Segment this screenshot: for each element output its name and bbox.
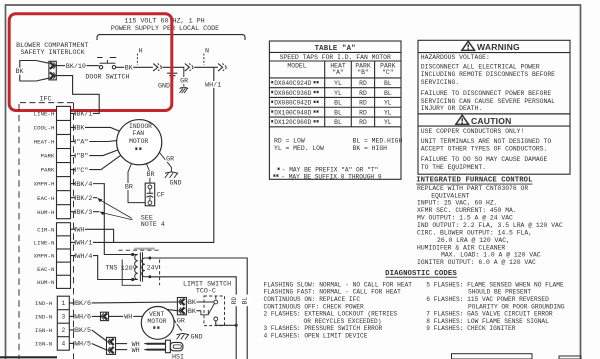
- label BL rotated: [243, 295, 250, 307]
- svg-text:FAILURE TO DO SO MAY CAUSE DAM: FAILURE TO DO SO MAY CAUSE DAMAGE: [421, 156, 548, 163]
- wire BK/1 to interlock: [56, 76, 99, 114]
- wire vent motor to connector: [167, 310, 177, 311]
- wire BK/10: [56, 65, 65, 67]
- wire N bus: [194, 66, 218, 68]
- node N: [203, 54, 205, 65]
- svg-text:FLASHING SLOW: NORMAL - NO CAL: FLASHING SLOW: NORMAL - NO CALL FOR HEAT: [264, 281, 413, 288]
- chassis ground fan motor: [165, 172, 178, 173]
- svg-text:RD: RD: [359, 90, 367, 97]
- svg-text:INTEGRATED FURNACE CONTROL: INTEGRATED FURNACE CONTROL: [416, 177, 532, 185]
- svg-text:BL: BL: [384, 80, 392, 87]
- svg-text:INJURY OR DEATH.: INJURY OR DEATH.: [421, 105, 482, 112]
- svg-text:SERVICING.: SERVICING.: [421, 79, 459, 86]
- svg-text:MAX. LOAD: 1.0 A @ 120 VAC: MAX. LOAD: 1.0 A @ 120 VAC: [441, 252, 541, 259]
- ground earth GND: [171, 67, 173, 73]
- igniter HSI: [166, 340, 171, 353]
- svg-text:INCLUDING REMOTE DISCONNECTS B: INCLUDING REMOTE DISCONNECTS BEFORE: [421, 71, 555, 78]
- svg-text:8 FLASHES: LOW FLAME SENSE SIG: 8 FLASHES: LOW FLAME SENSE SIGNAL: [426, 318, 549, 325]
- node H: [136, 54, 138, 65]
- connector pair line-H: [153, 64, 158, 72]
- door switch S1: [99, 66, 102, 69]
- transformer core: [139, 252, 141, 281]
- transformer right bracket: [159, 260, 161, 286]
- wire label BK/2: [71, 197, 76, 199]
- terminal strip N-side: [57, 223, 71, 289]
- wire BK/4 to transformer: [93, 184, 132, 255]
- svg-text:26.0 LRA @ 120 VAC,: 26.0 LRA @ 120 VAC,: [437, 237, 510, 244]
- wire BK limit top: [186, 301, 187, 303]
- power supply bracket: [97, 35, 245, 40]
- svg-text:BL = MED.HIGH: BL = MED.HIGH: [353, 137, 403, 144]
- table A box: [269, 41, 401, 179]
- wire label WH/6: [69, 315, 74, 317]
- table A data rows: [269, 87, 401, 89]
- svg-text:"B": "B": [357, 69, 369, 76]
- svg-text:RD: RD: [359, 100, 367, 107]
- wire label BK/6: [69, 302, 74, 304]
- connector pair 3: [218, 64, 223, 72]
- svg-text:OR RECYCLES EXCEEDED): OR RECYCLES EXCEEDED): [304, 318, 382, 325]
- wire WH/1 stub: [93, 241, 95, 243]
- svg-text:CONTINUOUS OFF: CHECK POWER: CONTINUOUS OFF: CHECK POWER: [264, 303, 365, 310]
- svg-text:MODEL: MODEL: [287, 63, 306, 70]
- svg-text:TABLE "A": TABLE "A": [315, 45, 356, 53]
- svg-text:4 FLASHES: OPEN LIMIT DEVICE: 4 FLASHES: OPEN LIMIT DEVICE: [264, 333, 368, 340]
- svg-text:TO THE EQUIPMENT.: TO THE EQUIPMENT.: [421, 164, 486, 171]
- wire label WH/1: [71, 241, 76, 243]
- svg-text:BL: BL: [334, 100, 342, 107]
- label 24V: [146, 264, 159, 271]
- svg-text:SPEED TAPS FOR I.D. FAN MOTOR: SPEED TAPS FOR I.D. FAN MOTOR: [280, 54, 391, 61]
- svg-text:DX060C936D: DX060C936D: [274, 90, 311, 97]
- wire speed tap A: [89, 140, 116, 143]
- wire BK/2 spare: [93, 197, 97, 199]
- svg-text:6 FLASHES: 115 VAC POWER REVER: 6 FLASHES: 115 VAC POWER REVERSED: [426, 296, 549, 303]
- chassis ground vent motor: [177, 333, 190, 334]
- wire WH/1 vertical: [93, 67, 213, 242]
- wire label "C": [71, 169, 76, 171]
- terminal strip igniter outputs: [57, 296, 69, 350]
- wire label BK/3: [71, 211, 76, 213]
- motor M1 indoor fan: [117, 120, 162, 165]
- wire WH igniter neutral: [116, 349, 128, 351]
- wire GR to chassis ground: [183, 67, 185, 86]
- svg-text:FAILURE TO DISCONNECT POWER BE: FAILURE TO DISCONNECT POWER BEFORE: [421, 90, 552, 97]
- svg-text:2 FLASHES: EXTERNAL LOCKOUT (R: 2 FLASHES: EXTERNAL LOCKOUT (RETRIES: [264, 311, 398, 318]
- wire BR right: [147, 164, 150, 185]
- warning header: [462, 41, 475, 50]
- wire GR fan motor: [160, 153, 172, 172]
- svg-text:"A": "A": [332, 69, 344, 76]
- svg-text:5 FLASHES: FLAME SENSED WHEN N: 5 FLASHES: FLAME SENSED WHEN NO FLAME: [426, 281, 564, 288]
- note 4 arrows: [99, 199, 132, 218]
- svg-text:CIRC. BLOWER OUTPUT: 14.5 FLA,: CIRC. BLOWER OUTPUT: 14.5 FLA,: [417, 229, 532, 236]
- svg-text:- MAY BE SUFFIX 0 THROUGH 9: - MAY BE SUFFIX 0 THROUGH 9: [281, 173, 382, 180]
- wire BK to fan motor: [85, 127, 120, 131]
- svg-text:9 FLASHES: CHECK IGNITER: 9 FLASHES: CHECK IGNITER: [426, 325, 515, 332]
- wire label BK: [71, 126, 76, 128]
- svg-text:HUMIDIFER & AIR CLEANER: HUMIDIFER & AIR CLEANER: [417, 244, 505, 251]
- svg-text:RD: RD: [359, 109, 367, 116]
- warning box: [418, 40, 570, 114]
- svg-text:INPUT: 25 VAC, 60 HZ.: INPUT: 25 VAC, 60 HZ.: [417, 200, 498, 207]
- svg-text:7 FLASHES: GAS VALVE CIRCUIT E: 7 FLASHES: GAS VALVE CIRCUIT ERROR: [426, 311, 553, 318]
- svg-text:CAUTION: CAUTION: [471, 116, 512, 126]
- capacitor CF: [145, 183, 155, 206]
- svg-text:BL: BL: [334, 119, 342, 126]
- wire BR left: [128, 164, 148, 203]
- wire WH igniter hot: [116, 343, 128, 345]
- wire label "B": [71, 155, 76, 157]
- title block edge: [0, 356, 57, 358]
- svg-text:DX100C948D: DX100C948D: [274, 109, 311, 116]
- wire speed tap C: [89, 155, 121, 169]
- svg-text:YL: YL: [384, 119, 392, 126]
- connector igniter: [107, 337, 116, 354]
- wire BK/6 to limit switch: [92, 301, 178, 304]
- svg-text:SHOULD BE PRESENT: SHOULD BE PRESENT: [468, 289, 531, 296]
- motor M2 vent: [141, 307, 174, 340]
- IFC dashed boundary: [20, 102, 74, 104]
- wire WH/4 to transformer: [93, 256, 132, 280]
- svg-text:DX080C942D: DX080C942D: [274, 100, 311, 107]
- wire H bus: [162, 66, 184, 68]
- svg-text:IGNITER OUTPUT: 6.0 A @ 120 VA: IGNITER OUTPUT: 6.0 A @ 120 VAC: [417, 259, 536, 266]
- svg-text:FLASHING FAST: NORMAL - CALL F: FLASHING FAST: NORMAL - CALL FOR HEAT: [264, 289, 402, 296]
- wire WH/5: [92, 343, 107, 350]
- svg-text:YL: YL: [334, 80, 342, 87]
- wire label WH/5: [69, 342, 74, 344]
- svg-text:RD: RD: [359, 80, 367, 87]
- svg-text:RD: RD: [359, 119, 367, 126]
- svg-text:YL: YL: [384, 109, 392, 116]
- wire BK/3 spare: [93, 211, 99, 213]
- connector pair 2: [185, 64, 190, 72]
- wire BK/5: [92, 330, 107, 341]
- svg-text:BK = HIGH: BK = HIGH: [353, 145, 388, 152]
- svg-text:REPLACE WITH PART CNT03076 OR: REPLACE WITH PART CNT03076 OR: [417, 185, 528, 192]
- connector pair interlock: [49, 61, 56, 80]
- svg-text:XFMR SEC. CURRENT: 450 MA.: XFMR SEC. CURRENT: 450 MA.: [417, 207, 517, 214]
- igniter HSI leads: [147, 343, 166, 345]
- wire WH circulator neutral: [85, 229, 114, 242]
- svg-text:RD = LOW: RD = LOW: [274, 137, 305, 144]
- transformer secondary 24V: [142, 258, 150, 277]
- wire WH/6: [92, 315, 101, 317]
- wire BL 24V hot rail: [151, 258, 247, 359]
- transformer TNS: [134, 248, 155, 250]
- highlight box blower interlock: [9, 14, 172, 111]
- chassis ground GR top: [180, 87, 189, 88]
- svg-text:DISCONNECT ALL ELECTRICAL POWE: DISCONNECT ALL ELECTRICAL POWER: [421, 64, 540, 71]
- caution box: [418, 114, 570, 174]
- svg-text:CONTINUOUS ON: REPLACE IFC: CONTINUOUS ON: REPLACE IFC: [264, 296, 361, 303]
- wire label "A": [71, 141, 76, 143]
- svg-text:POLARITY OR POOR GROUNDING: POLARITY OR POOR GROUNDING: [468, 303, 565, 310]
- connector pair limit switch: [177, 298, 186, 315]
- wire limit switch to RD rail: [216, 321, 236, 326]
- wire RD 24V common rail: [151, 277, 236, 359]
- wire label BK/4: [71, 183, 76, 185]
- wire label WH/4: [71, 255, 76, 257]
- svg-text:EQUIVALENT: EQUIVALENT: [431, 192, 470, 199]
- svg-text:DX040C924D: DX040C924D: [274, 80, 311, 87]
- wire label BK/5: [69, 329, 74, 331]
- blower interlock switch loop: [20, 61, 36, 82]
- wire speed tap B: [89, 150, 118, 156]
- TNS bracket: [122, 260, 141, 286]
- table A footnotes: [278, 168, 280, 170]
- svg-text:HAZARDOUS VOLTAGE:: HAZARDOUS VOLTAGE:: [421, 54, 490, 61]
- svg-text:YL: YL: [384, 100, 392, 107]
- svg-text:"C": "C": [382, 69, 394, 76]
- svg-text:YL: YL: [334, 90, 342, 97]
- wire GR vent motor: [173, 319, 181, 331]
- switch TCO-C: [204, 296, 225, 326]
- wire label BK/1: [71, 112, 76, 114]
- svg-text:ACCEPT OTHER TYPES OF CONDUCTO: ACCEPT OTHER TYPES OF CONDUCTORS.: [421, 146, 548, 153]
- connector WH/6: [101, 312, 109, 320]
- svg-text:USE COPPER CONDUCTORS ONLY!: USE COPPER CONDUCTORS ONLY!: [421, 128, 525, 135]
- svg-text:SERVICING CAN CAUSE SEVERE PER: SERVICING CAN CAUSE SEVERE PERSONAL: [421, 98, 555, 105]
- label RD rotated: [233, 295, 240, 307]
- svg-text:IND OUTPUT: 2.2 FLA, 3.5 LRA @: IND OUTPUT: 2.2 FLA, 3.5 LRA @ 120 VAC: [417, 222, 563, 229]
- svg-text:BL: BL: [334, 109, 342, 116]
- wire WH to vent motor: [109, 315, 124, 317]
- terminal strip H-side: [57, 106, 71, 218]
- svg-text:3 FLASHES: PRESSURE SWITCH ERR: 3 FLASHES: PRESSURE SWITCH ERROR: [264, 325, 383, 332]
- svg-text:MV OUTPUT: 1.5 A @ 24 VAC: MV OUTPUT: 1.5 A @ 24 VAC: [417, 215, 513, 222]
- wire BK limit bottom: [186, 310, 187, 312]
- wire label WH: [71, 228, 76, 230]
- svg-text:UNIT TERMINALS ARE NOT DESIGNE: UNIT TERMINALS ARE NOT DESIGNED TO: [421, 138, 552, 145]
- svg-text:BL: BL: [384, 90, 392, 97]
- svg-text:YL = MED. LOW: YL = MED. LOW: [274, 145, 324, 152]
- wire BK door switch to H plug: [116, 66, 125, 68]
- wire BK interlock: [15, 68, 24, 75]
- caution header: [456, 115, 469, 124]
- svg-text:WARNING: WARNING: [477, 42, 520, 52]
- svg-text:DX120C960D: DX120C960D: [274, 119, 311, 126]
